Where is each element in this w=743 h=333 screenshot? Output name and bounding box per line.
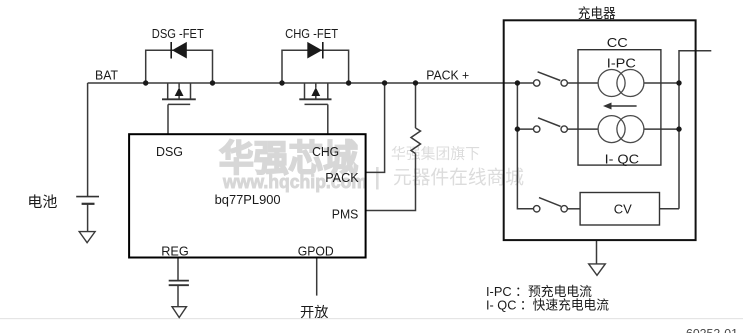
svg-text:华强集团旗下: 华强集团旗下 [391, 146, 480, 163]
svg-text:REG: REG [161, 244, 189, 259]
svg-text:CHG -FET: CHG -FET [285, 26, 338, 41]
svg-text:开放: 开放 [300, 304, 329, 320]
svg-text:I- QC ：快速充电电流: I- QC ：快速充电电流 [486, 298, 609, 313]
svg-text:bq77PL900: bq77PL900 [215, 192, 281, 207]
svg-text:CV: CV [614, 201, 632, 216]
svg-text:DSG -FET: DSG -FET [152, 26, 204, 41]
svg-text:I- QC: I- QC [605, 152, 640, 167]
svg-text:PACK: PACK [325, 170, 359, 185]
svg-text:60252-01: 60252-01 [686, 327, 738, 333]
svg-text:CC: CC [607, 35, 628, 50]
svg-text:GPOD: GPOD [298, 244, 334, 259]
svg-text:BAT: BAT [95, 68, 118, 83]
svg-text:DSG: DSG [156, 144, 183, 159]
svg-text:PMS: PMS [332, 207, 359, 222]
svg-text:电池: 电池 [27, 194, 57, 211]
svg-text:I-PC: I-PC [607, 56, 636, 71]
svg-text:充电器: 充电器 [578, 6, 616, 21]
svg-text:CHG: CHG [312, 144, 339, 159]
svg-text:PACK +: PACK + [426, 68, 469, 83]
